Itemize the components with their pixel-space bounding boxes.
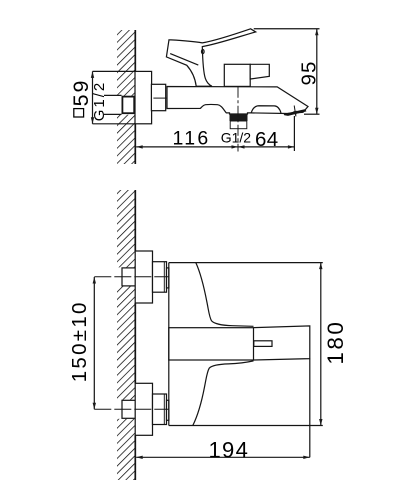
svg-text:116: 116 — [173, 128, 211, 150]
svg-text:150±10: 150±10 — [68, 300, 91, 382]
svg-text:95: 95 — [297, 60, 320, 85]
svg-text:64: 64 — [255, 128, 279, 151]
svg-text:59: 59 — [69, 78, 93, 106]
svg-text:G1/2: G1/2 — [91, 81, 108, 122]
svg-text:194: 194 — [209, 438, 250, 463]
svg-text:G1/2: G1/2 — [221, 129, 252, 145]
svg-text:180: 180 — [323, 320, 348, 365]
